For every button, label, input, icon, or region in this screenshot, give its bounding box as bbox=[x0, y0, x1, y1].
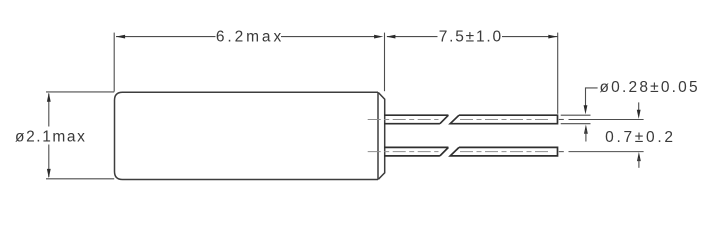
dimension ø2.1max vertical line segments bbox=[48, 94, 50, 127]
dimension 7.5 left arrow bbox=[386, 35, 395, 39]
dimension 6.2max: left extension line bbox=[113, 33, 115, 92]
dimension 7.5: right extension line at lead end bbox=[557, 33, 559, 114]
dimension 0.7 lower arrow tail bbox=[638, 158, 640, 168]
dimension ø2.1max: top extension line bbox=[46, 91, 114, 93]
dimension ø0.28 up arrow bbox=[584, 125, 588, 134]
dimension ø2.1max up arrow bbox=[47, 93, 51, 102]
dimension ø2.1max: bottom extension line bbox=[46, 178, 114, 180]
centerline bottom lead (body to break) bbox=[368, 151, 439, 153]
body seam line bbox=[377, 92, 379, 179]
dimension 0.7 upper down arrow bbox=[637, 110, 641, 119]
dimension 6.2max right arrow bbox=[374, 35, 383, 39]
top lead segment 2 bbox=[450, 115, 557, 124]
centerline extension right of bottom lead bbox=[559, 151, 564, 153]
centerline extension right of top lead bbox=[559, 118, 564, 120]
dimension ø0.28: lead bottom edge extension line bbox=[561, 123, 591, 125]
centerline bottom lead (after break) bbox=[460, 151, 551, 153]
dimension 6.2max line segments bbox=[116, 36, 216, 38]
body end cap bbox=[378, 93, 384, 180]
svg-text:0.7±0.2: 0.7±0.2 bbox=[605, 129, 676, 146]
svg-text:7.5±1.0: 7.5±1.0 bbox=[439, 28, 503, 45]
bottom lead segment 1 bbox=[384, 147, 448, 156]
body outline (crystal can) bbox=[115, 92, 379, 179]
dimension ø0.28 up arrow tail bbox=[585, 130, 587, 142]
svg-text:ø2.1max: ø2.1max bbox=[15, 129, 87, 146]
dimension ø0.28 down arrow bbox=[584, 105, 588, 114]
dimension 7.5 right arrow bbox=[548, 35, 557, 39]
centerline top lead (after break) bbox=[460, 118, 551, 120]
bottom lead segment 2 bbox=[450, 147, 557, 156]
dimension 6.2max left arrow bbox=[116, 35, 125, 39]
dimension ø0.28: lead top edge extension line bbox=[561, 114, 591, 116]
svg-text:6.2max: 6.2max bbox=[216, 28, 284, 45]
top lead segment 1 bbox=[384, 115, 448, 124]
dimension 6.2max / 7.5: shared right extension line bbox=[384, 33, 386, 92]
dimension 0.7 lower up arrow bbox=[637, 152, 641, 161]
svg-text:ø0.28±0.05: ø0.28±0.05 bbox=[600, 79, 700, 96]
dimension ø2.1max down arrow bbox=[47, 169, 51, 178]
centerline top lead (body to break) bbox=[368, 118, 439, 120]
dimension ø0.28 leader bbox=[586, 88, 598, 107]
dimension 0.7 upper arrow tail bbox=[638, 102, 640, 111]
dimension 7.5±1.0 line segments bbox=[387, 36, 438, 38]
